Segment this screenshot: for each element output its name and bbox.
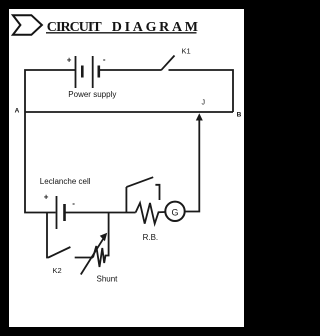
- svg-text:J: J: [202, 99, 206, 106]
- svg-text:+: +: [44, 193, 49, 202]
- svg-text:Leclanche cell: Leclanche cell: [40, 177, 91, 186]
- svg-text:Shunt: Shunt: [97, 274, 119, 283]
- svg-text:Power supply: Power supply: [68, 90, 116, 99]
- svg-text:-: -: [103, 55, 106, 64]
- svg-text:K2: K2: [53, 266, 62, 275]
- svg-text:B: B: [237, 112, 242, 119]
- svg-text:A: A: [15, 108, 20, 115]
- svg-text:-: -: [72, 199, 75, 208]
- svg-text:K1: K1: [182, 46, 191, 55]
- svg-text:R.B.: R.B.: [143, 233, 159, 242]
- svg-text:G: G: [172, 208, 179, 218]
- svg-text:+: +: [67, 55, 72, 64]
